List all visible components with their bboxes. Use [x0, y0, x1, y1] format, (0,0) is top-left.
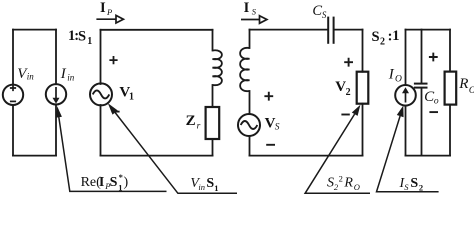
svg-text:I: I	[60, 66, 67, 82]
label V1	[119, 84, 134, 102]
svg-text:R: R	[458, 76, 468, 92]
wire loop3 right upper	[362, 30, 364, 72]
callout leader to Iin	[59, 117, 167, 191]
callout leader to IO	[377, 116, 439, 192]
svg-text:): )	[124, 175, 129, 190]
callout leader to V2 box	[305, 114, 370, 193]
svg-text:in: in	[67, 72, 75, 82]
svg-text:S: S	[322, 10, 327, 20]
label Re(IP S1*)	[81, 172, 129, 193]
wire loop4 left lower	[405, 106, 407, 156]
svg-text:2: 2	[380, 36, 385, 47]
svg-text:S: S	[252, 6, 257, 16]
wire loop4 right lower	[449, 105, 451, 156]
svg-text:S: S	[410, 176, 418, 191]
svg-text:1: 1	[214, 183, 218, 193]
wire loop1 left upper	[12, 30, 14, 85]
wire loop1 left lower	[12, 105, 14, 155]
svg-text:1: 1	[87, 36, 92, 47]
minus V1	[111, 111, 119, 113]
label S2:1	[372, 28, 400, 47]
wire loop3 left upper	[249, 30, 251, 48]
arrow IP	[96, 15, 123, 23]
label RO	[458, 76, 474, 96]
label IO	[388, 67, 402, 85]
resistor box RO	[445, 72, 457, 105]
wire loop2 bottom	[101, 155, 213, 157]
label S2^2 RO	[327, 174, 360, 192]
label Iin	[60, 66, 75, 82]
wire loop4 left upper	[405, 30, 407, 85]
wire loop2 left lower	[100, 105, 102, 156]
current source Iin	[46, 84, 66, 104]
svg-text:S: S	[206, 176, 214, 191]
svg-text:I: I	[100, 0, 106, 16]
svg-text:*: *	[119, 172, 123, 182]
resistor box V2 (reflected load)	[357, 72, 369, 104]
wire loop1 top	[13, 29, 56, 31]
label VS	[265, 115, 280, 132]
svg-text:V: V	[335, 79, 346, 95]
wire loop4 right upper	[449, 30, 451, 72]
label Zr	[186, 113, 201, 132]
label Vin S1	[190, 176, 218, 193]
minus V2	[341, 114, 349, 116]
svg-text:S: S	[404, 182, 409, 192]
svg-text:C: C	[312, 3, 322, 19]
minus CO	[429, 111, 438, 113]
wire loop1 bottom	[13, 155, 56, 157]
svg-text:I: I	[388, 67, 395, 83]
plus CO	[429, 53, 438, 62]
controlled source V1	[90, 83, 112, 105]
label IP	[100, 0, 112, 17]
label CS	[312, 3, 327, 20]
wire loop4 middle upper	[421, 30, 423, 83]
svg-text:O: O	[354, 182, 360, 192]
wire loop2 left upper	[100, 30, 102, 84]
svg-text:I: I	[244, 0, 250, 16]
wire loop2 right lower	[212, 139, 214, 156]
wire loop1 right lower	[55, 105, 57, 156]
svg-text:r: r	[197, 121, 201, 131]
inductor L3	[240, 48, 249, 91]
wire loop3 left mid	[249, 91, 251, 114]
svg-text:in: in	[198, 182, 205, 192]
svg-text:O: O	[469, 86, 474, 96]
minus VS	[266, 144, 275, 146]
wire loop2 top	[101, 29, 213, 31]
wire loop4 bottom	[406, 155, 451, 157]
wire loop2 right upper	[212, 30, 214, 51]
svg-text:O: O	[395, 74, 402, 84]
capacitor CO	[414, 84, 428, 88]
wire loop2 right mid	[212, 85, 214, 107]
callout leader to V1	[115, 113, 237, 194]
wire loop4 top	[406, 29, 451, 31]
impedance box Zr	[206, 107, 220, 139]
svg-text:1: 1	[118, 183, 122, 193]
voltage source Vin	[3, 85, 23, 105]
svg-text:o: o	[434, 97, 439, 107]
wire loop3 right lower	[362, 104, 364, 156]
svg-text:2: 2	[419, 183, 423, 193]
wire loop3 bottom	[250, 155, 363, 157]
plus VS	[264, 92, 273, 101]
svg-text:S: S	[78, 29, 86, 45]
svg-text:S: S	[372, 29, 380, 45]
capacitor CS	[328, 17, 333, 44]
wire loop4 middle lower	[421, 88, 423, 155]
label Vin	[17, 66, 34, 82]
label IS	[244, 0, 257, 16]
wire loop3 top left	[250, 29, 328, 31]
svg-text:2: 2	[339, 174, 343, 184]
wire loop3 left lower	[249, 136, 251, 155]
label CO	[424, 89, 439, 107]
label IS S2	[399, 176, 424, 193]
plus V2	[344, 58, 353, 67]
svg-text:1: 1	[392, 28, 399, 44]
svg-text:S: S	[275, 122, 280, 132]
plus V1	[109, 56, 117, 64]
svg-text:Z: Z	[186, 113, 196, 129]
inductor L2	[213, 50, 222, 85]
wire loop3 top right	[335, 29, 363, 31]
label 1:S1	[68, 28, 92, 47]
wire loop1 right upper	[55, 30, 57, 84]
svg-text:1: 1	[129, 92, 134, 103]
label V2	[335, 79, 350, 98]
svg-text:P: P	[106, 7, 112, 17]
arrow IS	[241, 16, 267, 24]
source VS	[238, 114, 260, 136]
svg-text:in: in	[27, 72, 35, 82]
svg-text:2: 2	[346, 87, 351, 98]
svg-text:I: I	[99, 175, 104, 190]
svg-text:S: S	[110, 175, 118, 190]
svg-text:R: R	[343, 176, 353, 191]
current source IO	[395, 85, 416, 106]
